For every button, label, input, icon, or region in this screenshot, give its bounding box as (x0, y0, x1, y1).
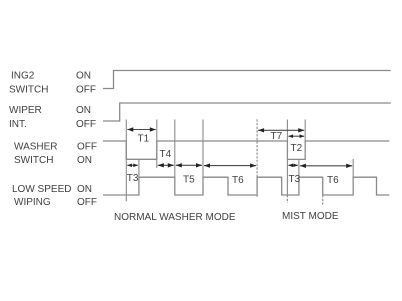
svg-text:T6: T6 (232, 175, 244, 186)
svg-text:OFF: OFF (76, 119, 96, 130)
svg-text:T3: T3 (127, 173, 139, 184)
svg-text:T7: T7 (271, 131, 283, 142)
svg-text:WASHER: WASHER (14, 142, 58, 153)
svg-text:WIPER: WIPER (9, 105, 42, 116)
svg-text:OFF: OFF (77, 197, 97, 208)
svg-text:SWITCH: SWITCH (9, 85, 48, 96)
svg-text:ON: ON (77, 155, 92, 166)
svg-text:T2: T2 (291, 143, 303, 154)
svg-text:OFF: OFF (76, 85, 96, 96)
svg-text:T6: T6 (327, 175, 339, 186)
svg-text:OFF: OFF (77, 142, 97, 153)
svg-text:WIPING: WIPING (14, 197, 51, 208)
svg-text:NORMAL WASHER MODE: NORMAL WASHER MODE (114, 212, 236, 223)
svg-text:INT.: INT. (9, 119, 27, 130)
svg-text:LOW SPEED: LOW SPEED (12, 184, 71, 195)
svg-text:MIST MODE: MIST MODE (282, 211, 339, 222)
svg-text:T4: T4 (160, 149, 172, 160)
svg-text:SWITCH: SWITCH (14, 155, 53, 166)
svg-text:T3: T3 (289, 174, 301, 185)
svg-text:ON: ON (76, 105, 91, 116)
svg-text:ING2: ING2 (11, 71, 35, 82)
svg-text:ON: ON (76, 71, 91, 82)
svg-text:T5: T5 (183, 175, 195, 186)
svg-text:T1: T1 (138, 134, 150, 145)
svg-text:ON: ON (77, 184, 92, 195)
